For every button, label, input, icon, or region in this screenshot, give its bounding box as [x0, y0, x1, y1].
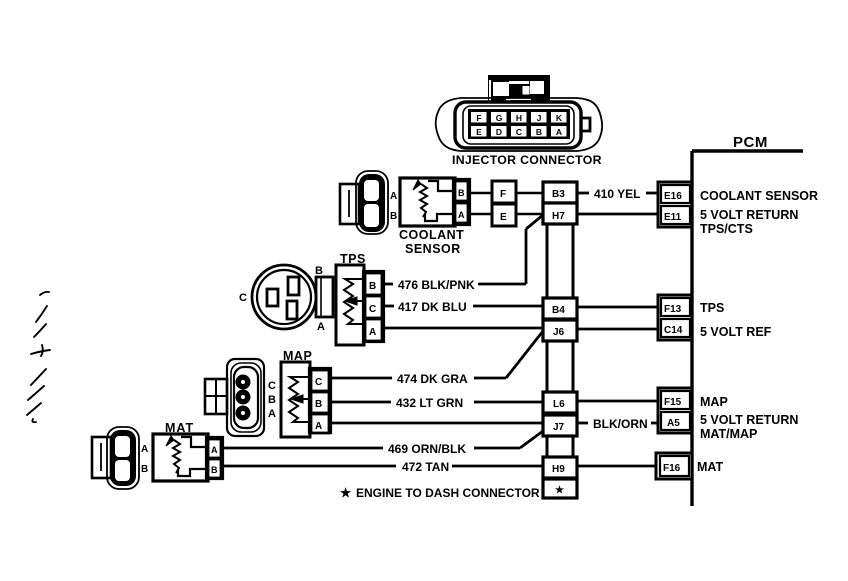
bus pin L6	[543, 392, 577, 413]
svg-text:ENGINE TO DASH CONNECTOR: ENGINE TO DASH CONNECTOR	[356, 486, 540, 500]
wire L6 to F15	[577, 400, 658, 403]
pin box B	[208, 459, 221, 478]
svg-text:469 ORN/BLK: 469 ORN/BLK	[388, 442, 466, 456]
svg-text:F: F	[476, 113, 481, 123]
terminal C	[236, 375, 251, 390]
svg-text:INJECTOR CONNECTOR: INJECTOR CONNECTOR	[452, 153, 602, 167]
svg-text:TPS: TPS	[700, 301, 724, 315]
bus pin B4	[543, 298, 577, 319]
note ENGINE TO DASH CONNECTOR	[340, 486, 540, 500]
svg-text:5 VOLT RETURN: 5 VOLT RETURN	[700, 208, 798, 222]
cavity C	[267, 289, 278, 306]
wire MAP A to J7	[331, 422, 543, 425]
terminal A	[236, 406, 251, 421]
thermistor arrow	[413, 180, 421, 190]
svg-text:L6: L6	[553, 399, 565, 410]
svg-text:B4: B4	[552, 305, 565, 316]
connector body black ring	[359, 174, 385, 232]
svg-text:★: ★	[340, 486, 352, 500]
svg-text:F13: F13	[664, 304, 682, 315]
MAP harness connector	[205, 359, 264, 436]
svg-text:A: A	[141, 444, 148, 455]
shell outer	[227, 359, 264, 436]
PCM pin pair F15/A5 frame	[658, 388, 692, 433]
svg-text:A: A	[458, 210, 465, 220]
injector pin E box	[492, 204, 516, 226]
wire B3 to E16 with label 410 YEL	[577, 192, 658, 195]
svg-text:432 LT GRN: 432 LT GRN	[396, 396, 463, 410]
svg-text:E: E	[500, 212, 507, 223]
wire 476 BLK/PNK TPS B to H7	[384, 215, 543, 284]
sensor body	[281, 362, 310, 437]
PCM pin E16	[661, 185, 690, 203]
upper contact	[428, 181, 453, 191]
svg-text:B3: B3	[552, 189, 565, 200]
outer shell outline with side wings	[436, 98, 602, 151]
thermistor zigzag	[173, 440, 180, 473]
PCM pin pair F13/C14 frame	[658, 295, 692, 340]
PCM pin F13	[661, 298, 690, 316]
pin box B	[365, 273, 382, 295]
zigzag top lead	[297, 376, 310, 378]
pot body	[336, 265, 364, 345]
wire E to H7	[516, 213, 543, 216]
pin frame	[206, 437, 223, 479]
bus pin J7	[543, 415, 577, 436]
lower contact	[425, 214, 453, 221]
MAP sensor	[281, 349, 331, 437]
svg-text:C14: C14	[664, 325, 683, 336]
svg-text:A: A	[317, 321, 325, 333]
PCM pin E11	[661, 206, 690, 224]
svg-text:A: A	[390, 191, 397, 202]
svg-text:F: F	[500, 189, 506, 200]
svg-text:COOLANT: COOLANT	[399, 228, 464, 242]
bus pin H7	[543, 203, 577, 224]
wiper arrow	[291, 395, 303, 403]
svg-text:C: C	[268, 380, 276, 392]
svg-text:H9: H9	[552, 464, 565, 475]
svg-text:472 TAN: 472 TAN	[402, 460, 449, 474]
svg-text:5 VOLT RETURN: 5 VOLT RETURN	[700, 413, 798, 427]
svg-text:J6: J6	[553, 327, 565, 338]
tab stem	[510, 100, 531, 104]
pin box A	[208, 439, 221, 458]
pin box C	[311, 370, 329, 391]
TPS harness connector	[252, 265, 333, 329]
svg-text:SENSOR: SENSOR	[405, 242, 461, 256]
svg-text:E: E	[476, 127, 482, 137]
svg-text:A5: A5	[667, 418, 680, 429]
svg-text:C: C	[516, 127, 522, 137]
upper contact	[181, 437, 205, 447]
resistor zigzag	[344, 279, 353, 324]
connector cavity bottom	[364, 204, 379, 227]
PCM pin F15	[661, 391, 690, 409]
wire H7 to E11	[577, 213, 658, 216]
svg-text:5 VOLT REF: 5 VOLT REF	[700, 325, 772, 339]
lower contact	[178, 469, 205, 476]
pin frame	[363, 271, 384, 342]
cavity bottom	[115, 460, 130, 481]
svg-text:C: C	[315, 377, 322, 388]
PCM boundary	[692, 151, 803, 506]
key tab	[316, 277, 333, 317]
svg-text:BLK/ORN: BLK/ORN	[593, 417, 648, 431]
svg-text:B: B	[268, 394, 276, 406]
svg-text:B: B	[369, 281, 376, 292]
wire coolant B to F	[470, 192, 492, 195]
svg-text:J: J	[537, 113, 542, 123]
bus pin star	[543, 479, 577, 498]
bracket	[92, 437, 111, 478]
svg-text:K: K	[556, 113, 563, 123]
connector cavity top	[364, 180, 379, 201]
MAT harness connector	[92, 427, 139, 489]
inner liner	[463, 106, 574, 144]
thermistor zigzag	[420, 184, 427, 217]
wire 417 DK BLU TPS C to B4	[384, 305, 543, 308]
pin box A	[365, 319, 382, 341]
mounting tab	[488, 75, 550, 103]
svg-text:E11: E11	[664, 212, 682, 223]
connector bracket	[340, 184, 359, 224]
wire H9 to F16	[577, 465, 657, 468]
svg-text:B: B	[390, 211, 397, 222]
cavity B	[288, 277, 299, 295]
svg-text:A: A	[211, 445, 218, 455]
connector shell outline	[356, 171, 388, 234]
TPS potentiometer	[336, 252, 384, 345]
injector pin F box	[492, 181, 516, 203]
svg-text:PCM: PCM	[733, 134, 768, 151]
svg-text:F15: F15	[664, 397, 682, 408]
svg-text:MAP: MAP	[700, 395, 728, 409]
bracket inner line	[348, 190, 350, 217]
coolant sensor CTS	[399, 178, 470, 256]
wire coolant A to E	[470, 213, 492, 216]
svg-text:474 DK GRA: 474 DK GRA	[397, 372, 468, 386]
cavity top	[115, 436, 130, 457]
terminal B	[236, 390, 251, 405]
zigzag top lead	[352, 278, 364, 280]
svg-text:MAT: MAT	[697, 460, 724, 474]
svg-text:E16: E16	[664, 191, 682, 202]
handwriting marks	[27, 292, 50, 422]
pin grid	[468, 109, 570, 139]
sensor body	[400, 178, 455, 226]
svg-text:C: C	[239, 292, 247, 304]
svg-text:A: A	[268, 408, 276, 420]
pin box B	[455, 181, 468, 201]
zigzag bottom lead	[297, 421, 310, 423]
pin letters row EDCBA	[476, 127, 562, 137]
svg-text:B: B	[315, 399, 322, 410]
engine-to-dash connector bus rails	[547, 182, 573, 498]
wire 469 ORN/BLK MAT A to J7	[223, 431, 543, 448]
body black ring	[110, 430, 136, 486]
svg-text:TPS/CTS: TPS/CTS	[700, 222, 753, 236]
PCM pin pair E16/E11 frame	[658, 182, 692, 227]
outer circle	[252, 265, 316, 329]
wire TPS A to J6	[384, 327, 543, 330]
svg-text:B: B	[536, 127, 542, 137]
svg-text:B: B	[315, 265, 323, 277]
svg-text:★: ★	[555, 485, 564, 496]
MAT sensor	[153, 421, 223, 481]
svg-text:A: A	[315, 421, 322, 432]
sensor body	[153, 434, 208, 481]
pin box B	[311, 392, 329, 413]
svg-text:417 DK BLU: 417 DK BLU	[398, 300, 467, 314]
wire B4 to F13	[577, 306, 658, 309]
wire J7 to A5 with label BLK/ORN	[577, 422, 658, 425]
pin frame	[453, 179, 470, 225]
svg-text:COOLANT SENSOR: COOLANT SENSOR	[700, 189, 818, 203]
coolant sensor harness connector	[340, 171, 388, 234]
pin frame	[309, 368, 331, 433]
pin box A	[455, 203, 468, 223]
svg-text:G: G	[496, 113, 503, 123]
wire 432 LT GRN MAP B to L6	[331, 401, 543, 404]
bracket	[205, 379, 227, 414]
svg-text:B: B	[458, 188, 465, 198]
svg-text:C: C	[369, 304, 376, 315]
wire F to B3	[516, 192, 543, 195]
pin letters row FGHJK	[476, 113, 563, 123]
shell inner	[234, 367, 258, 428]
wire J6 to C14	[577, 328, 658, 331]
thermistor arrow	[166, 436, 174, 446]
svg-text:A: A	[369, 327, 376, 338]
PCM pin C14	[661, 319, 690, 337]
bus pin J6	[543, 320, 577, 341]
bus pin B3	[543, 182, 577, 203]
svg-text:MAT/MAP: MAT/MAP	[700, 427, 757, 441]
PCM pin F16 frame	[656, 453, 692, 479]
svg-text:B: B	[211, 465, 218, 475]
svg-text:D: D	[496, 127, 502, 137]
resistor zigzag	[289, 377, 298, 422]
PCM pin A5	[661, 412, 690, 430]
right lock tab	[581, 118, 590, 131]
svg-text:476 BLK/PNK: 476 BLK/PNK	[398, 278, 475, 292]
svg-text:H7: H7	[552, 211, 565, 222]
wiper arrow	[345, 297, 357, 305]
shell mid	[231, 363, 261, 432]
injector connector	[436, 75, 602, 167]
wire 472 TAN MAT B to H9	[223, 465, 543, 468]
cavity A	[287, 301, 297, 319]
bus pin H9	[543, 457, 577, 478]
svg-text:A: A	[556, 127, 562, 137]
svg-text:410 YEL: 410 YEL	[594, 187, 640, 201]
zigzag bottom lead	[351, 323, 364, 325]
svg-text:J7: J7	[553, 422, 565, 433]
wire 474 DK GRA MAP C to J6	[331, 331, 543, 378]
connector body	[455, 102, 581, 148]
PCM pin F16	[660, 456, 689, 476]
pin box A	[311, 414, 329, 433]
pin box C	[365, 296, 382, 318]
svg-text:H: H	[516, 113, 522, 123]
inner circle	[257, 270, 311, 324]
svg-text:B: B	[141, 464, 148, 475]
svg-text:F16: F16	[663, 463, 681, 474]
shell outline	[107, 427, 139, 489]
